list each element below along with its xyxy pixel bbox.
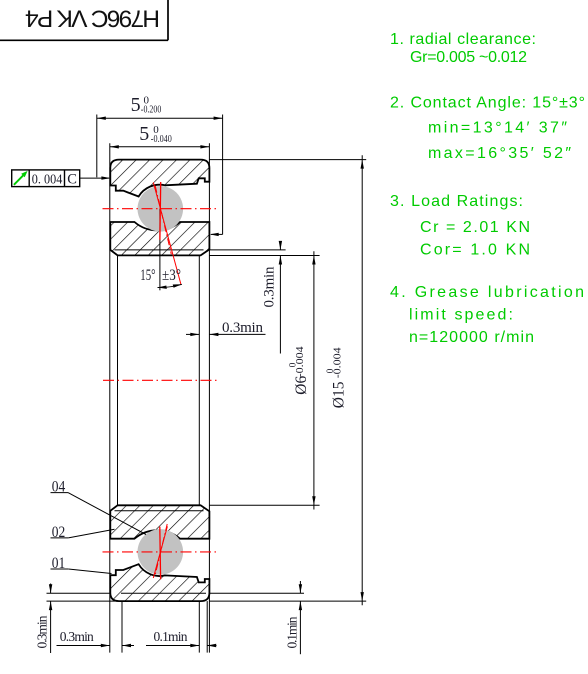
svg-text:0.1min: 0.1min xyxy=(285,616,300,648)
Ø6 extension line bottom xyxy=(209,504,319,506)
runout symbol (green arrow) xyxy=(14,171,28,185)
0.3min vertical dim (top right, chamfer) xyxy=(209,249,285,251)
svg-text:0.3min: 0.3min xyxy=(60,629,94,644)
red centerline bottom row xyxy=(103,551,218,553)
svg-text:-0.004: -0.004 xyxy=(295,346,306,377)
svg-text:15°: 15° xyxy=(140,267,155,284)
hatched outer ring top section xyxy=(110,160,209,197)
svg-text:5: 5 xyxy=(131,94,141,116)
svg-text:5: 5 xyxy=(139,123,149,145)
svg-text:Gr=0.005 ~0.012: Gr=0.005 ~0.012 xyxy=(410,49,527,66)
Ø15 -0.004 text (rotated) xyxy=(326,347,348,408)
Ø6 extension line top xyxy=(209,255,319,257)
svg-text:Cor= 1.0 KN: Cor= 1.0 KN xyxy=(420,242,530,259)
svg-text:Cr = 2.01 KN: Cr = 2.01 KN xyxy=(420,219,530,236)
angle reference vertical (black) xyxy=(159,209,161,291)
red dash-dot limit line top xyxy=(155,186,171,254)
svg-text:0.3min: 0.3min xyxy=(35,615,50,648)
svg-text:min=13°14′ 37″: min=13°14′ 37″ xyxy=(428,120,567,137)
ball top xyxy=(138,186,184,232)
green notes xyxy=(390,31,585,346)
svg-text:H796C VK P4: H796C VK P4 xyxy=(25,4,160,31)
Ø15 extension line top xyxy=(209,159,366,161)
svg-text:1. radial clearance:: 1. radial clearance: xyxy=(390,31,536,48)
title block box xyxy=(0,0,168,40)
FCF leader arrow xyxy=(101,176,110,179)
svg-text:n=120000 r/min: n=120000 r/min xyxy=(409,329,534,346)
svg-text:0.3min: 0.3min xyxy=(222,320,264,336)
outer ring bottom chamfer edge line xyxy=(121,592,206,594)
svg-text:±3°: ±3° xyxy=(162,267,181,284)
hatched outer ring bottom section xyxy=(110,564,209,601)
svg-text:limit speed:: limit speed: xyxy=(409,306,513,323)
feature control frame xyxy=(12,170,80,187)
svg-text:2. Contact Angle: 15°±3°: 2. Contact Angle: 15°±3° xyxy=(390,94,585,111)
ball bottom xyxy=(138,529,184,575)
bore chamfer line left xyxy=(117,255,119,505)
hatched inner ring top section xyxy=(110,222,209,255)
FCF leader xyxy=(80,177,110,179)
svg-text:4. Grease lubrication: 4. Grease lubrication xyxy=(390,284,584,301)
bottom-left 0.3min vertical dim xyxy=(47,592,111,594)
svg-text:Ø6: Ø6 xyxy=(293,376,310,395)
svg-text:-0.004: -0.004 xyxy=(333,347,344,378)
left outline / extension vertical xyxy=(109,143,111,652)
inner ring top chamfer edge line xyxy=(115,249,204,251)
bottom 0.3min horizontal dim xyxy=(57,645,110,647)
bottom-right 0.1min vertical dim xyxy=(209,592,304,594)
red dash-dot limit line bottom xyxy=(155,524,167,575)
inner ring bottom chamfer edge line xyxy=(115,510,204,512)
angle dimension arc xyxy=(158,284,182,287)
red contact line 15deg top xyxy=(153,182,181,284)
Ø6 dimension line xyxy=(313,251,315,509)
svg-text:max=16°35′ 52″: max=16°35′ 52″ xyxy=(428,145,571,162)
right outline / extension vertical xyxy=(208,143,210,652)
red near-vertical line top xyxy=(159,182,162,240)
bottom 0.1min horizontal dim xyxy=(146,645,199,647)
dimension 5 -0.040 xyxy=(110,146,210,148)
Ø15 dimension line xyxy=(361,155,363,605)
hatched inner ring bottom section xyxy=(110,505,209,538)
red centerline top row xyxy=(103,208,218,210)
0.3min horizontal dim (middle) xyxy=(186,333,199,335)
bore chamfer line right xyxy=(198,255,200,505)
svg-text:0.1min: 0.1min xyxy=(154,629,188,644)
svg-text:-0.200: -0.200 xyxy=(141,103,162,115)
red centerline axis xyxy=(103,379,217,381)
svg-text:-0.040: -0.040 xyxy=(151,133,172,145)
svg-text:3. Load Ratings:: 3. Load Ratings: xyxy=(390,193,523,210)
dimension 5 -0.200 xyxy=(97,115,223,235)
svg-text:C: C xyxy=(67,171,77,187)
svg-text:0.3min: 0.3min xyxy=(262,266,278,308)
red contact line 15deg bottom xyxy=(153,526,167,578)
red near-vertical line bottom xyxy=(159,527,162,580)
svg-text:0. 004: 0. 004 xyxy=(32,171,63,186)
Ø15 extension line bottom xyxy=(209,600,366,602)
svg-text:Ø15: Ø15 xyxy=(331,381,348,408)
Ø6 -0.004 text (rotated) xyxy=(288,346,310,394)
